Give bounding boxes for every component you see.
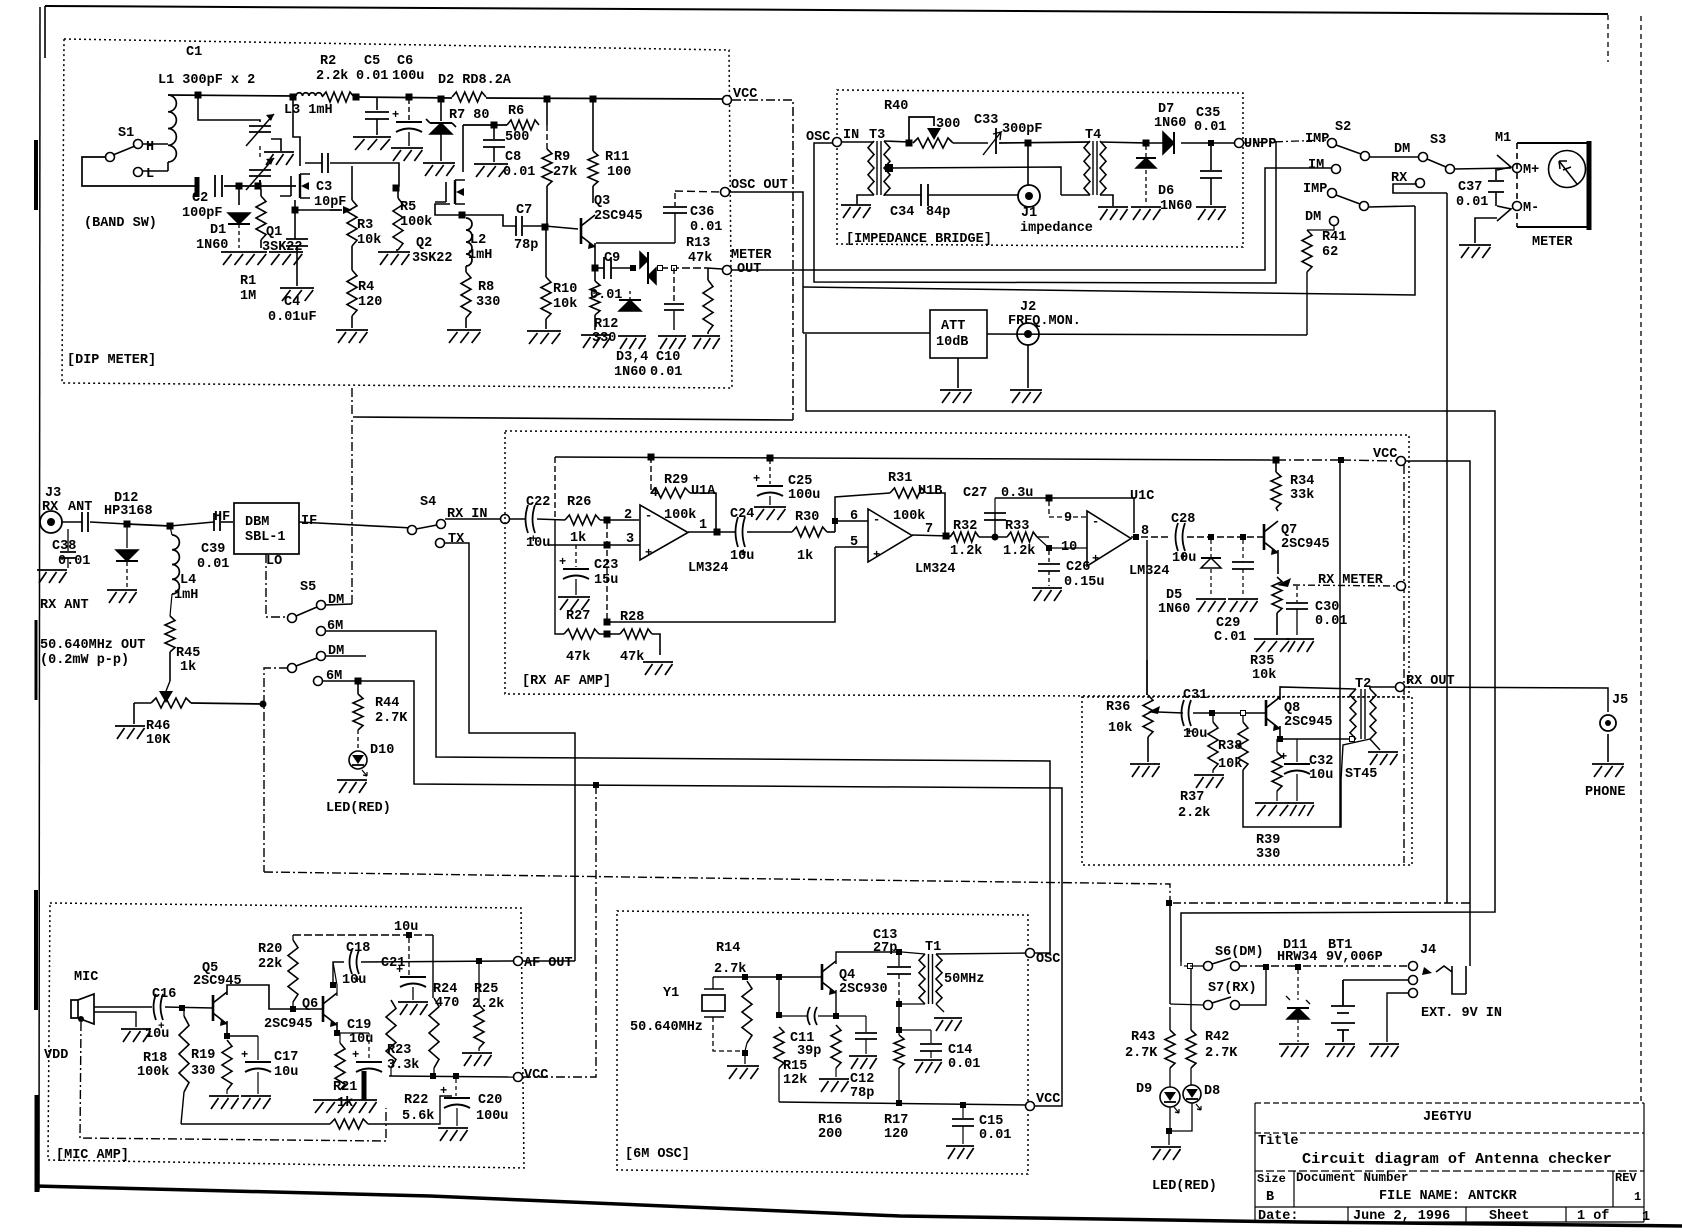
wire LED gnd [1168,1131,1170,1145]
node label R14 [716,941,740,956]
wire VCC down right [1405,461,1470,966]
node junction L4 [167,523,173,529]
ground R25 [462,1053,492,1066]
switch S6 [1188,958,1240,971]
node label C29 [1216,616,1240,631]
wire VCC row mic [389,1076,514,1077]
diode D11 [1286,970,1310,1042]
switch S1 [106,140,143,177]
inductor L2 [466,218,472,266]
node label Document Number [1296,1171,1409,1185]
node label C14 [948,1043,972,1058]
wire C7 row [462,215,578,229]
svg-text:HP3168: HP3168 [104,504,153,519]
node M- contact [1497,206,1511,221]
svg-text:C27: C27 [963,486,987,501]
node label C18 value [342,973,366,988]
svg-text:R24: R24 [433,982,457,997]
wire R26 out [600,519,639,521]
node label C5 [364,54,380,69]
wire S4 feed [353,417,793,420]
svg-text:LED(RED): LED(RED) [326,801,391,816]
node label R10 [553,282,577,297]
node label C1 [186,45,202,60]
svg-text:D7: D7 [1158,102,1174,117]
svg-text:100u: 100u [476,1109,508,1124]
svg-text:10u: 10u [1172,551,1196,566]
node label R6 value [505,130,529,145]
node label ATT [941,319,965,334]
node label M1 [1495,131,1511,146]
wire Q5 emitter [226,1021,228,1036]
node label C27 value [1001,486,1033,501]
node connector VCC mid [1397,457,1406,466]
node label D11 type [1277,950,1318,965]
node label R8 value [476,295,500,310]
ground R10 [527,331,561,344]
ground R8 [447,330,481,343]
svg-text:R12: R12 [594,317,618,332]
svg-text:Q3: Q3 [594,194,610,209]
node connector METER OUT [723,266,732,275]
wire bridge in [841,141,874,143]
svg-text:22k: 22k [258,957,282,972]
svg-text:27k: 27k [553,165,577,180]
node label C3 [316,180,332,195]
wire C22 to R26 [537,519,565,520]
node junction C20 [454,1074,459,1079]
wire r32r33 [979,536,1007,538]
wire C28 out [1187,536,1263,538]
node junction R1 [255,183,261,189]
svg-text:D5: D5 [1166,588,1182,603]
node connector RX METER [1397,582,1406,591]
node label Y1 freq [630,1020,703,1035]
wire C12 link [836,1015,866,1017]
wire T4 prim bottom [1061,194,1090,196]
node label R21 value [337,1096,353,1111]
svg-text:VCC: VCC [1036,1092,1060,1107]
node label R42 value [1205,1046,1238,1061]
svg-text:2SC945: 2SC945 [264,1017,313,1032]
node label R4 value [358,295,382,310]
wire U1B out [912,535,950,536]
ground D1 R1 [221,252,303,265]
resistor R24 [429,998,439,1076]
svg-text:R34: R34 [1290,474,1314,489]
svg-text:10u: 10u [526,536,550,551]
node junction vcc 6m [594,783,599,788]
node title company [1423,1110,1472,1125]
svg-text:+: + [753,472,760,486]
node label S4 [420,495,436,510]
svg-text:-: - [1092,515,1099,529]
svg-text:J4: J4 [1420,943,1436,958]
node label C13 value [873,941,897,956]
node label R28 [620,610,644,625]
switch S5 pole1 [288,601,326,623]
switch S2 imp [1328,139,1370,161]
node label C13 [873,928,897,943]
ground C29 [1228,599,1258,612]
node label R27 [566,609,590,624]
diode D4 [648,268,656,284]
svg-text:DM: DM [1305,210,1321,225]
wire C11 row [782,1015,834,1017]
resistor R26 [565,515,600,525]
node label C9 value [590,288,622,303]
node label J2 name [1008,314,1081,329]
node label sheet 1of [1577,1209,1609,1224]
node label U1A gain [664,508,696,523]
diode D2 zener [426,99,456,161]
resistor R6 [507,120,539,130]
node label R6 [508,104,524,119]
node label J5 [1612,693,1628,708]
svg-text:39p: 39p [797,1044,821,1059]
resistor R4 [347,270,357,328]
svg-text:0.01: 0.01 [197,557,229,572]
resistor R12 [590,271,600,330]
node label VCC 6m [1036,1092,1060,1107]
resistor R23 [386,1000,396,1076]
wire R17 [898,1007,900,1035]
node junction J1 top [1025,140,1031,146]
node connector VCC dip [723,96,732,105]
node junction D34 right [658,266,663,271]
svg-text:C12: C12 [850,1072,874,1087]
inductor L1 [168,95,176,171]
node connector J1 [1018,185,1040,207]
resistor R35 potentiometer [1272,577,1291,635]
node label R45 [176,646,200,661]
svg-text:1M: 1M [240,289,256,304]
capacitor C10 [664,268,684,330]
op-amp U1B [868,509,912,562]
node label C11 [790,1031,814,1046]
svg-text:1: 1 [1634,1190,1641,1204]
node RX AF AMP section box [505,431,1409,697]
node label R7 80 [449,108,490,123]
node label C26 [1066,560,1090,575]
resistor R37 [1238,716,1370,827]
svg-text:100u: 100u [788,488,820,503]
svg-text:C26: C26 [1066,560,1090,575]
svg-text:15u: 15u [594,573,618,588]
node label Q8 type [1284,715,1333,730]
svg-text:0.01: 0.01 [356,69,388,84]
svg-text:C9: C9 [604,251,620,266]
ground D10 [337,780,367,793]
capacitor C16 electrolytic [154,994,166,1033]
node label L4 value [174,588,198,603]
node label R30 [795,510,819,525]
resistor R43 [1165,1007,1175,1087]
node label D1 value [196,238,228,253]
node label U1B [918,484,942,499]
ground C26 [1032,588,1062,601]
node label R13 value [688,251,712,266]
node junction R40 [906,140,912,146]
svg-text:R37: R37 [1180,790,1204,805]
wire pin9 [1049,501,1087,517]
svg-text:330: 330 [1256,847,1280,862]
node label R34 value [1290,488,1314,503]
ground C10 [658,336,686,349]
ground ATT [940,358,972,403]
wire C14 link [899,1029,931,1031]
svg-text:LM324: LM324 [1129,564,1170,579]
node label C15 [979,1114,1003,1129]
wire VCC mid drop [1403,465,1405,863]
node MIC AMP label [56,1148,129,1163]
svg-text:LM324: LM324 [688,561,729,576]
wire pin5 [835,546,868,548]
node label pin4 [650,486,658,501]
wire R30 out [827,531,835,533]
svg-text:R22: R22 [404,1093,428,1108]
wire page left edge [36,7,40,1192]
node label R22 [404,1093,428,1108]
node connector M plus [1513,164,1522,173]
svg-text:50MHz: 50MHz [944,972,985,987]
svg-text:C18: C18 [346,941,370,956]
node label R5 value [400,215,432,230]
wire C1 branch [198,95,260,122]
svg-text:LED(RED): LED(RED) [1152,1179,1217,1194]
ground D2 [423,163,455,176]
svg-text:1mH: 1mH [174,588,198,603]
svg-text:84p: 84p [926,205,950,220]
capacitor C32 electrolytic [1280,739,1310,801]
svg-text:S3: S3 [1430,133,1446,148]
svg-text:C33: C33 [974,113,998,128]
resistor R31 [835,488,945,535]
wire ATT run [803,333,1307,335]
svg-text:+: + [873,548,880,562]
svg-text:S4: S4 [420,495,436,510]
svg-text:R46: R46 [146,719,170,734]
node junction T1 bot [897,1002,902,1007]
node junction C27 [1046,495,1052,501]
svg-text:R42: R42 [1205,1030,1229,1045]
svg-text:C39: C39 [201,542,225,557]
wire LED join [1170,1103,1192,1131]
node label C35 [1196,106,1220,121]
node junction rail a [648,454,654,460]
node junction R25 [477,959,482,964]
wire 6M2 run [322,681,1062,1106]
svg-text:(0.2mW p-p): (0.2mW p-p) [40,653,129,668]
node label RX OUT [1406,674,1455,689]
node label R42 [1205,1030,1229,1045]
ground J5 [1592,734,1624,777]
svg-text:D2 RD8.2A: D2 RD8.2A [438,73,512,88]
resistor R18 [179,1011,189,1124]
node label C8 [505,150,521,165]
node label M minus [1523,201,1539,216]
svg-text:12k: 12k [783,1073,807,1088]
svg-text:300pF: 300pF [1002,122,1043,137]
ground C8 [474,164,508,177]
node label LED RED 2 [1152,1179,1217,1194]
node label R37 [1180,790,1204,805]
node label C36 value [690,220,722,235]
node rail junction R6 top [544,96,550,102]
node connector M minus [1513,202,1522,211]
wire T2 sec bottom [1370,739,1380,750]
transistor Q8 [1266,697,1280,731]
svg-text:R23: R23 [387,1043,411,1058]
node junction U1B out [943,533,949,539]
svg-text:J5: J5 [1612,693,1628,708]
svg-text:C3: C3 [316,180,332,195]
svg-text:C31: C31 [1183,688,1207,703]
switch S5 pole2 [288,652,326,673]
node label R39 [1256,833,1280,848]
svg-text:C22: C22 [526,495,550,510]
node label C32 value [1309,768,1333,783]
node label R17 value [884,1127,908,1142]
svg-text:1N60: 1N60 [614,365,646,380]
transistor Q5 [213,992,227,1026]
capacitor C13 [887,955,911,1002]
resistor R16 [831,1025,841,1077]
svg-text:10k: 10k [1108,721,1132,736]
svg-text:J3: J3 [45,486,61,501]
svg-text:L1 300pF x 2: L1 300pF x 2 [158,73,255,88]
resistor R2 [322,92,354,102]
node label M plus [1523,163,1539,178]
diode D3 [640,252,648,268]
node label Q2 type [412,251,453,266]
svg-text:9: 9 [1064,511,1072,526]
svg-text:HRW34: HRW34 [1277,950,1318,965]
svg-text:R14: R14 [716,941,740,956]
resistor R19 [222,1040,232,1094]
wire RX OUT to J5 [1404,687,1608,712]
node junction S6 feed [1167,901,1172,906]
svg-text:0.01: 0.01 [979,1128,1011,1143]
ground R12 [581,335,611,348]
svg-text:10K: 10K [146,733,171,748]
svg-text:2SC945: 2SC945 [594,209,643,224]
ground C14 [914,1060,942,1073]
node label C28 value [1172,551,1196,566]
ground D34b [618,336,646,349]
node label file name [1379,1189,1518,1204]
node label T3 [869,128,885,143]
capacitor C2 [215,175,222,197]
node label AF OUT [524,956,573,971]
svg-text:ATT: ATT [941,319,965,334]
wire U1A out [688,531,735,533]
capacitor C24 electrolytic [736,517,748,560]
wire 6M1 run [325,631,1050,953]
capacitor ANT coupling [82,512,88,532]
node connector J5 [1600,715,1616,731]
wire C11 drop [778,980,780,1012]
node junction rail C25 [767,455,773,461]
node label C6 value [392,69,424,84]
svg-text:R44: R44 [375,696,399,711]
capacitor C12 [855,1016,877,1054]
node junction D5 [1209,535,1214,540]
resistor R46 potentiometer [134,681,191,724]
svg-text:C10: C10 [656,350,680,365]
node label R43 [1131,1030,1155,1045]
ground R46 [115,726,145,739]
node label R2 value [316,69,348,84]
node label H [146,140,154,155]
node rail junction L3 [290,94,296,100]
node label Q8 [1284,701,1300,716]
capacitor C14 [920,1030,942,1058]
node connector VCC mic [514,1073,523,1082]
wire R46 out [191,703,263,704]
svg-text:T2: T2 [1355,677,1371,692]
wire S7 wire [1170,967,1266,1005]
wire C27 top [995,498,1134,533]
node label SBL-1 [245,530,286,545]
node label pin1 [699,518,707,533]
wire Q3 emitter out [596,242,675,244]
node connector DM low [1330,217,1339,226]
ground R13 [692,336,720,349]
node label R15 [783,1059,807,1074]
node label IMP2 [1303,182,1327,197]
transistor Q7 [1264,521,1278,555]
node junction C14 [897,1028,902,1033]
node connector J4 b [1409,976,1418,985]
ground D9 D8 [1151,1147,1181,1160]
svg-text:R2: R2 [320,54,336,69]
svg-text:RX ANT: RX ANT [40,598,89,613]
wire S6 left [1181,962,1187,966]
node label R36 value [1108,721,1132,736]
node label OSC IN a [806,130,830,145]
node label RX ANT [40,598,89,613]
wire VCC mic out [522,785,596,1077]
node label Date [1258,1209,1299,1224]
node junction C11 top [777,975,782,980]
node label EXT 9V [1421,1006,1502,1021]
svg-text:100u: 100u [392,69,424,84]
node connector VCC 6m [1026,1102,1035,1111]
node label S3 [1430,133,1446,148]
node label R19 [191,1048,215,1063]
svg-text:FREQ.MON.: FREQ.MON. [1008,314,1081,329]
wire LO down [266,554,288,617]
node junction Y1 top [743,975,748,980]
wire inv drop [606,523,608,622]
ground C20 [438,1128,468,1141]
node label C2 value [182,206,223,221]
svg-text:U1B: U1B [918,484,942,499]
node label C31 [1183,688,1207,703]
node label R11 value [607,165,631,180]
node label C22 [526,495,550,510]
node junction C21 rail [407,933,412,938]
wire C9 row [595,268,722,269]
node label R41 [1322,230,1346,245]
node label D34 [616,350,648,365]
svg-text:R9: R9 [554,150,570,165]
node label pin9 [1064,511,1072,526]
svg-text:1: 1 [1642,1210,1650,1225]
node junction U1B in [833,519,838,524]
wire RX S3 vertical [1446,193,1448,903]
